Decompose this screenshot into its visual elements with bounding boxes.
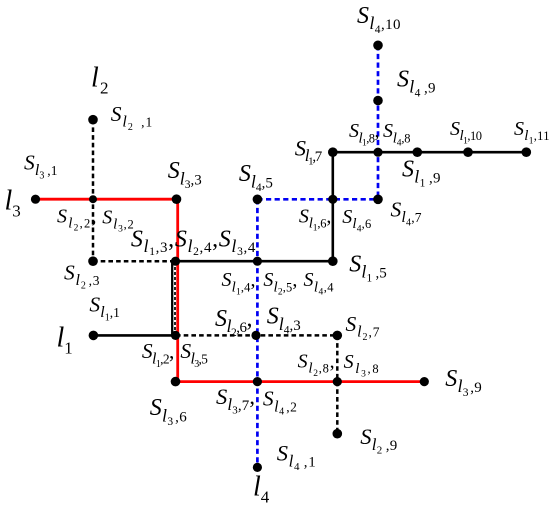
wire l1 vertical right (black solid) bbox=[331, 152, 334, 261]
wire l2 vertical bottom (black dashed) bbox=[336, 335, 339, 433]
node S_l2,3 bbox=[88, 256, 98, 266]
node S_l4,9 bbox=[373, 96, 383, 106]
node S_l1,6 S_l4,6 bbox=[328, 195, 337, 204]
wire l2 horizontal lower (black dashed) bbox=[176, 334, 337, 337]
node S_l2,1 bbox=[88, 115, 98, 125]
node S_l3,6 bbox=[171, 377, 181, 387]
node S_l1,2 S_l3,5 bbox=[171, 331, 180, 340]
node S_l1,3 S_l2,4 S_l3,4 bbox=[171, 257, 180, 266]
node S_l3,9 bbox=[420, 377, 429, 386]
wire l3 horizontal top (red) bbox=[36, 198, 178, 201]
node l3 start bbox=[31, 195, 40, 204]
wire l4 vertical main (blue dashed) bbox=[256, 199, 259, 467]
wire l4 horizontal (blue dashed) bbox=[257, 198, 378, 201]
wire l1 horizontal left (black solid) bbox=[93, 334, 176, 337]
wire l2 horizontal (black dashed) bbox=[93, 260, 175, 263]
node S_l3,3 bbox=[172, 194, 182, 204]
node S_l1,9 dot bbox=[413, 147, 423, 157]
node S_l4,10 bbox=[373, 41, 383, 51]
node S_l3,7 S_l4,2 bbox=[253, 377, 262, 386]
node S_l1,8 S_l4,8 bbox=[373, 148, 382, 157]
node S_l1,4 S_l2,5 S_l4,4 bbox=[253, 257, 262, 266]
node S_l2,2 S_l3,2 bbox=[89, 195, 97, 203]
node S_l1,5 bbox=[328, 256, 338, 266]
node S_l1,7 bbox=[328, 147, 338, 157]
node S_l1,1 bbox=[89, 331, 99, 341]
wire l2 vertical top (black dashed) bbox=[92, 120, 95, 262]
wire l3 horizontal bottom (red) bbox=[176, 380, 424, 383]
node S_l1,10 bbox=[463, 147, 473, 157]
wire l2 dotted vertical doubled segment bbox=[174, 262, 176, 334]
node S_l2,8 S_l3,8 bbox=[333, 377, 342, 386]
wire l1 horizontal middle (black solid) bbox=[175, 260, 333, 263]
wire l1 horizontal top (black solid) bbox=[333, 151, 527, 154]
wire l1 vertical doubled segment (black solid) bbox=[171, 261, 173, 335]
node S_l4,7 bbox=[373, 195, 383, 205]
node S_l4,1 bbox=[253, 463, 262, 472]
node S_l2,6 S_l4,3 bbox=[251, 331, 260, 340]
node S_l2,7 bbox=[333, 331, 343, 341]
node S_l2,9 bbox=[333, 429, 343, 439]
wire l3 vertical (red) bbox=[176, 198, 179, 382]
node S_l4,5 bbox=[253, 195, 263, 205]
node S_l1,11 bbox=[522, 147, 532, 157]
wire l4 vertical top (blue dashed) bbox=[377, 45, 380, 199]
